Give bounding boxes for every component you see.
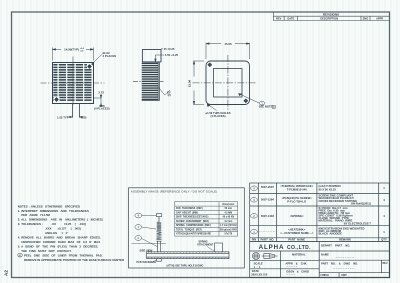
svg-text:PER ASME Y14.5M: PER ASME Y14.5M: [21, 213, 50, 217]
svg-text:SCALE: SCALE: [254, 262, 263, 266]
svg-text:4. REMOVE ALL BURRS AND BR: 4. REMOVE ALL BURRS AND BREAK SHARP EDGE…: [18, 236, 101, 240]
balloon 1 see note: [259, 101, 264, 105]
svg-text:<HEATSINK>: <HEATSINK>: [288, 228, 305, 232]
side base plate edge: [142, 62, 160, 101]
svg-text:SEE NOTE: SEE NOTE: [259, 105, 273, 109]
logo sun symbol: [253, 253, 260, 260]
svg-text:6.35: 6.35: [81, 115, 87, 119]
balloon row1: [251, 229, 258, 234]
revisions table: [273, 12, 389, 21]
corner target marker top-right: [87, 64, 93, 69]
svg-text:<SPRING>: <SPRING>: [290, 214, 304, 218]
right dimension 2.72: [94, 94, 102, 106]
svg-text:A2: A2: [4, 270, 9, 276]
package outline: [53, 63, 94, 104]
screw through plate and nut: [156, 241, 161, 261]
balloon row2: [251, 214, 258, 219]
svg-text:5. A BEND OF THE PIN (FLE: 5. A BEND OF THE PIN (FLEX) THAN 3 DEGRE…: [18, 244, 99, 248]
svg-text:PART NO. & DWG NO.: PART NO. & DWG NO.: [321, 261, 358, 265]
svg-text:-- -- -- -- --: -- -- -- -- --: [286, 266, 297, 269]
svg-text:DEPART PART NO.: DEPART PART NO.: [321, 243, 350, 247]
spec table grid: [175, 202, 238, 237]
bom grid: [250, 183, 390, 242]
svg-text:MATERIAL: MATERIAL: [292, 252, 306, 256]
spring coil: [157, 222, 162, 239]
svg-text:15.06: 15.06: [187, 79, 191, 87]
inner pad square: [214, 69, 243, 98]
svg-text:DATE: DATE: [252, 269, 259, 273]
svg-text:1.7 mm [30 KG]: 1.7 mm [30 KG]: [220, 225, 237, 227]
svg-text:5007-2007: 5007-2007: [261, 185, 275, 189]
svg-text:1 : 1: 1 : 1: [254, 265, 261, 269]
balloon 4: [135, 213, 142, 218]
horizontal centerline view2: [133, 80, 164, 82]
svg-text:DESCRIPTION: DESCRIPTION: [320, 17, 338, 21]
svg-text:5007-1403: 5007-1403: [261, 214, 275, 218]
svg-text:APPR: APPR: [376, 17, 383, 21]
svg-text:57x778: 57x778: [224, 234, 232, 236]
screw shaft: [158, 217, 160, 222]
svg-text:20XX.XX.X B: 20XX.XX.X B: [251, 273, 267, 277]
svg-text:15 ±0.25: 15 ±0.25: [164, 47, 175, 51]
leader 4.50: [155, 55, 164, 62]
vertical centerline view3: [227, 55, 229, 111]
leader see note: [239, 94, 260, 104]
svg-text:PART NO.: PART NO.: [261, 238, 275, 242]
right clip block: [215, 243, 223, 252]
svg-text:NAME: NAME: [321, 253, 329, 257]
svg-text:ALPHA: ALPHA: [259, 244, 285, 251]
balloon row4: [251, 186, 258, 191]
svg-text:2.72: 2.72: [98, 90, 104, 94]
svg-text:T-PCM5810-040: T-PCM5810-040: [287, 187, 308, 191]
svg-text:ENG: ENG: [363, 17, 369, 21]
svg-text:SCREW ASSESSMENT (REF): SCREW ASSESSMENT (REF): [176, 220, 209, 223]
bom header texts: [252, 238, 387, 242]
svg-text:<---CUSTOMER NAME--->: <---CUSTOMER NAME--->: [280, 231, 314, 235]
svg-text:REMARK: REMARK: [339, 238, 351, 242]
screw head: [156, 214, 161, 217]
top dimension 15.06: [206, 43, 250, 59]
svg-text:DATE: DATE: [287, 17, 294, 21]
bottom lead dimension 1.02 TYP: [68, 116, 84, 118]
balloon row3: [251, 198, 258, 203]
svg-text:SPRING COMPRESSION (REF): SPRING COMPRESSION (REF): [176, 225, 211, 227]
svg-text:P/N: P/N: [252, 238, 257, 242]
svg-text:(4 PLACES): (4 PLACES): [94, 107, 110, 111]
svg-text:SHIP THICKNESS (EST./AVG): SHIP THICKNESS (EST./AVG): [176, 216, 209, 219]
svg-text:FINISH: FINISH: [321, 274, 329, 277]
svg-text:4 PLACES: 4 PLACES: [103, 54, 117, 58]
svg-text:1.02 TYP: 1.02 TYP: [57, 115, 69, 119]
corner target marker top-left: [208, 63, 212, 67]
svg-text:APPR & CHK: APPR & CHK: [285, 261, 306, 265]
svg-text:ATTACHMENT: ATTACHMENT: [197, 243, 214, 246]
spec table text: [176, 204, 237, 236]
svg-text:TOTAL TORQUE (REF): TOTAL TORQUE (REF): [176, 229, 202, 232]
svg-text:UNSPECIFIED CORNER RADII MA: UNSPECIFIED CORNER RADII MAX OF 0.3 R MA…: [21, 240, 100, 244]
svg-text:5007-1294: 5007-1294: [261, 198, 275, 202]
svg-text:3. TOLERANCES : .XX: 3. TOLERANCES : .XX ±0.25 [ .010]: [18, 222, 86, 226]
fin pattern (top view dashes): [53, 65, 92, 100]
bom row2 texts: [261, 206, 385, 225]
svg-text:BY ELECTROLESS T: BY ELECTROLESS T: [344, 221, 372, 225]
svg-text:REV: REV: [276, 17, 282, 21]
revisions table titles: [276, 12, 383, 20]
svg-text:40 x 90 XN: 40 x 90 XN: [223, 216, 235, 219]
svg-text:CO.,LTD.: CO.,LTD.: [287, 245, 311, 251]
svg-text:ASSEMBLY IMAGE (REFERENCE ONLY: ASSEMBLY IMAGE (REFERENCE ONLY / DO NOT …: [131, 189, 218, 193]
svg-text:90 X 90 X0.25: 90 X 90 X0.25: [319, 187, 337, 191]
svg-text:4.2 mm: 4.2 mm: [224, 220, 232, 223]
svg-text:4.5 MM: 4.5 MM: [224, 212, 232, 215]
bom row3 texts: [261, 194, 385, 206]
top width dimension 14.99: [53, 48, 94, 61]
svg-text:50 mm: 50 mm: [225, 208, 232, 210]
side base block: [142, 50, 161, 62]
bottom lead/tab: [73, 104, 80, 118]
svg-text:PART NAME: PART NAME: [288, 238, 305, 242]
svg-text:500 gf/cm2 PAD: 500 gf/cm2 PAD: [220, 229, 238, 232]
svg-text:QTY: QTY: [381, 238, 387, 242]
heatsink base bar cross-section: [147, 252, 230, 259]
svg-text:- - - - - - - - - -: - - - - - - - - - -: [259, 231, 275, 234]
balloon 3: [135, 225, 142, 230]
svg-text:REVISIONS: REVISIONS: [323, 12, 339, 16]
svg-text:(ATTN) USE THRU HOLE B DWG: (ATTN) USE THRU HOLE B DWG: [167, 264, 204, 267]
svg-text:NOTES : UNLESS OTHERWISE SPE: NOTES : UNLESS OTHERWISE SPECIFIED: [18, 204, 80, 208]
balloon leader lines: [142, 216, 158, 248]
svg-text:ATTACH(QUANTITY)PRESSURE: ATTACH(QUANTITY)PRESSURE: [176, 233, 211, 236]
svg-text:THE FINS MUST NOT CONTACT.: THE FINS MUST NOT CONTACT.: [21, 249, 71, 253]
svg-text:(2): (2): [168, 94, 171, 97]
horizontal centerline view3: [193, 82, 256, 84]
svg-text:REV: REV: [383, 262, 388, 265]
svg-text:14.99(TYP): 14.99(TYP): [64, 48, 79, 52]
svg-text:Dimension: Dimension: [222, 204, 234, 206]
bom row1 texts: [259, 227, 385, 236]
spring attachment leader: [207, 247, 214, 252]
leader 15 +-0.25: [161, 48, 163, 50]
outer body rounded square: [206, 61, 250, 105]
svg-text:ANGLES ± 1°: ANGLES ± 1°: [45, 231, 69, 235]
svg-text:BLACK ANODIZE: BLACK ANODIZE: [319, 232, 343, 236]
horizontal centerline view1: [41, 82, 105, 84]
svg-text:-- -- -- --: -- -- -- --: [286, 274, 295, 277]
svg-text:UNIT: UNIT: [341, 274, 347, 277]
title block grid: [250, 242, 390, 278]
svg-text:2. ALL DIMENSIONS ARE IN: 2. ALL DIMENSIONS ARE IN MILLIMETERS [ I…: [18, 218, 103, 222]
svg-text:REMOVE IN APPROXIMATE POSITION: REMOVE IN APPROXIMATE POSITION OF THE BA…: [24, 258, 125, 262]
svg-text:4.50 +0.25: 4.50 +0.25: [165, 53, 179, 57]
washer: [156, 240, 161, 242]
svg-text:PEEL ONE SIDE OF LINER FR: PEEL ONE SIDE OF LINER FROM THERMAL PAD.: [24, 253, 103, 257]
svg-text:15.06: 15.06: [224, 42, 232, 46]
leader line under balloons: [132, 242, 167, 244]
leader thru holes: [207, 104, 216, 111]
svg-text:GAP HEIGHT (MIN): GAP HEIGHT (MIN): [176, 212, 198, 215]
side fins: [142, 63, 159, 99]
svg-text:.XXX ±0.127 [ .005]: .XXX ±0.127 [ .005]: [45, 227, 81, 231]
svg-text:PAD THICKNESS (REF): PAD THICKNESS (REF): [176, 207, 203, 210]
svg-text:(4 PLACES): (4 PLACES): [211, 114, 226, 118]
small leader to nut: [152, 260, 157, 263]
bom row4 texts: [261, 184, 385, 191]
vertical centerline view1: [72, 57, 74, 105]
fin angle leader 15deg: [159, 88, 170, 96]
svg-text:-- -- -- -- -- -- -- -- --: -- -- -- -- -- -- -- -- --: [333, 268, 354, 271]
leader dia 1.02 4 places: [92, 55, 102, 66]
svg-text:P-FLC-TB4-LD: P-FLC-TB4-LD: [287, 199, 306, 203]
svg-text:-- -- -- -- -- -- -- --: -- -- -- -- -- -- -- --: [336, 256, 354, 259]
bar hatch marks: [148, 252, 230, 259]
assembly frame: [129, 188, 245, 268]
third angle projection symbol: [262, 254, 278, 259]
corner target marker bottom-left: [54, 97, 60, 102]
balloon 2: [135, 236, 142, 241]
corner target marker bottom-right: [244, 99, 248, 103]
left dimension 15.06: [193, 61, 204, 105]
svg-text:ON RoHS(2011): ON RoHS(2011): [351, 202, 371, 206]
